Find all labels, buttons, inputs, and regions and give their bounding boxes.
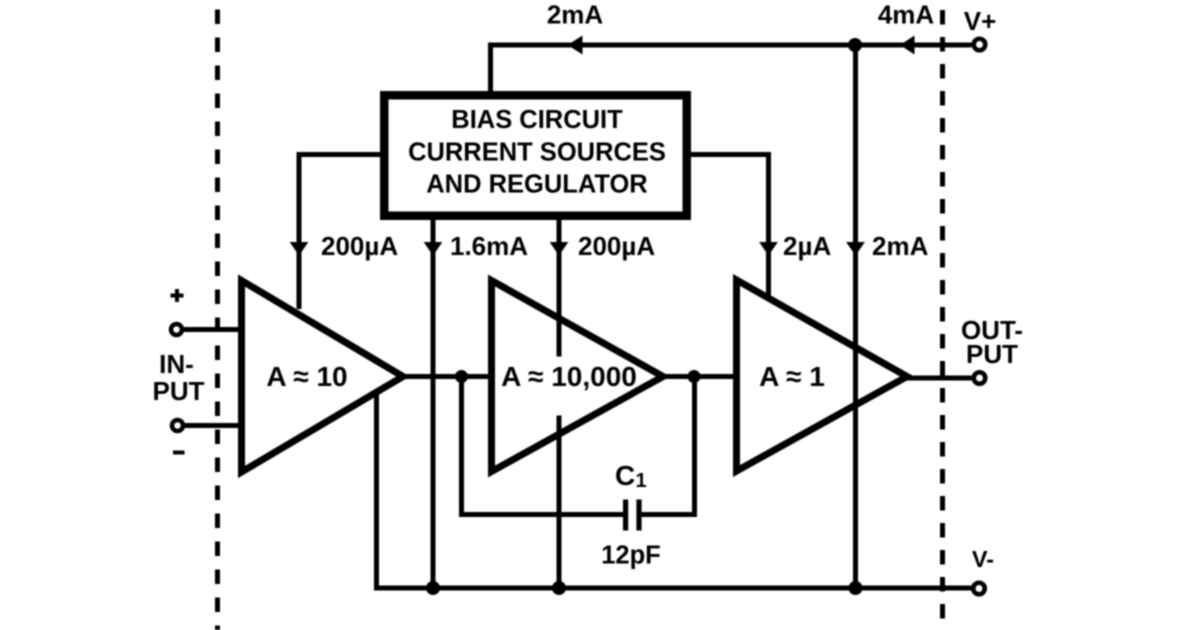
svg-text:A ≈ 1: A ≈ 1 bbox=[759, 361, 825, 392]
wire amp1 feedback drop and V- rail bbox=[377, 392, 972, 588]
arrow 1.6mA bbox=[424, 242, 443, 256]
capacitor C1 plates bbox=[623, 500, 628, 531]
label + (noninverting input) bbox=[171, 294, 184, 298]
wire 200uA #2 over amp2 (above label) bbox=[557, 308, 562, 357]
wire 200uA #2 over amp2 (below label) bbox=[557, 416, 562, 446]
node junction amp1 output bbox=[455, 370, 468, 383]
capacitor C1 left branch wire bbox=[462, 377, 624, 515]
node junction V- rail at 200uA #2 bbox=[552, 581, 566, 595]
svg-text:2mA: 2mA bbox=[872, 231, 929, 261]
svg-text:CURRENT SOURCES: CURRENT SOURCES bbox=[408, 139, 666, 167]
wire 2mA over amp3 bbox=[853, 300, 858, 588]
svg-text:PUT: PUT bbox=[153, 376, 205, 406]
wire 2mA drop from V+ rail node through amp3 to V- rail bbox=[853, 45, 858, 588]
svg-text:12pF: 12pF bbox=[601, 542, 661, 570]
svg-text:2µA: 2µA bbox=[783, 231, 831, 261]
node junction V- rail at 2mA bbox=[849, 581, 863, 595]
svg-text:C: C bbox=[615, 460, 635, 491]
wire + input to amp1 bbox=[184, 327, 242, 332]
left dashed package boundary bbox=[215, 0, 220, 630]
wire 200uA #2 drop through amp2 to V- rail bbox=[557, 217, 562, 588]
V+ terminal bbox=[974, 39, 986, 51]
amp1 triangle A~10 bbox=[242, 281, 404, 473]
label - (inverting input) bbox=[173, 451, 185, 455]
V- terminal bbox=[973, 583, 985, 595]
wire bias box left to amp1 (200uA source) bbox=[299, 155, 380, 310]
svg-text:1: 1 bbox=[636, 470, 647, 492]
input - terminal bbox=[172, 420, 183, 431]
svg-text:PUT: PUT bbox=[966, 339, 1018, 369]
arrow on V+ rail (2mA into bias) bbox=[568, 36, 583, 55]
svg-text:1.6mA: 1.6mA bbox=[450, 231, 528, 261]
svg-text:4mA: 4mA bbox=[878, 0, 935, 30]
arrow 2mA #2 bbox=[846, 242, 865, 256]
svg-text:A ≈ 10,000: A ≈ 10,000 bbox=[501, 361, 637, 392]
wire 1.6mA drop to V- rail bbox=[431, 217, 436, 588]
wire amp1 output to amp2 input bbox=[403, 374, 495, 379]
bias circuit box U1 bbox=[384, 95, 687, 216]
arrow on V+ rail (4mA from V+) bbox=[900, 36, 915, 55]
node junction V- rail at 1.6mA bbox=[426, 581, 440, 595]
svg-text:2mA: 2mA bbox=[547, 0, 604, 30]
wire - input to amp1 bbox=[185, 423, 242, 428]
svg-text:BIAS CIRCUIT: BIAS CIRCUIT bbox=[451, 106, 623, 134]
capacitor C1 right branch wire bbox=[642, 377, 695, 515]
wire V+ rail to bias box bbox=[491, 45, 972, 95]
wire amp3 output to OUTPUT terminal bbox=[905, 376, 972, 381]
svg-text:V-: V- bbox=[972, 546, 994, 572]
node junction on V+ rail bbox=[848, 38, 862, 52]
svg-text:200µA: 200µA bbox=[321, 231, 398, 261]
wire bias box right to amp3 (2uA source) bbox=[690, 155, 769, 297]
svg-text:V+: V+ bbox=[964, 6, 997, 36]
arrow 200uA #1 bbox=[290, 242, 309, 256]
arrow 200uA #2 bbox=[550, 242, 569, 256]
arrow 2uA bbox=[759, 242, 778, 256]
amp3 triangle A~1 bbox=[737, 280, 908, 471]
svg-text:IN-: IN- bbox=[159, 349, 194, 379]
amp2 triangle A~10,000 bbox=[492, 281, 664, 472]
svg-text:200µA: 200µA bbox=[578, 231, 655, 261]
right dashed package boundary bbox=[940, 0, 945, 630]
input + terminal bbox=[171, 324, 182, 335]
svg-text:AND REGULATOR: AND REGULATOR bbox=[426, 171, 647, 199]
wire amp2 output to amp3 input bbox=[663, 374, 741, 379]
OUTPUT terminal bbox=[974, 372, 986, 384]
svg-text:A ≈ 10: A ≈ 10 bbox=[266, 361, 347, 392]
node junction amp2 output bbox=[688, 370, 701, 383]
